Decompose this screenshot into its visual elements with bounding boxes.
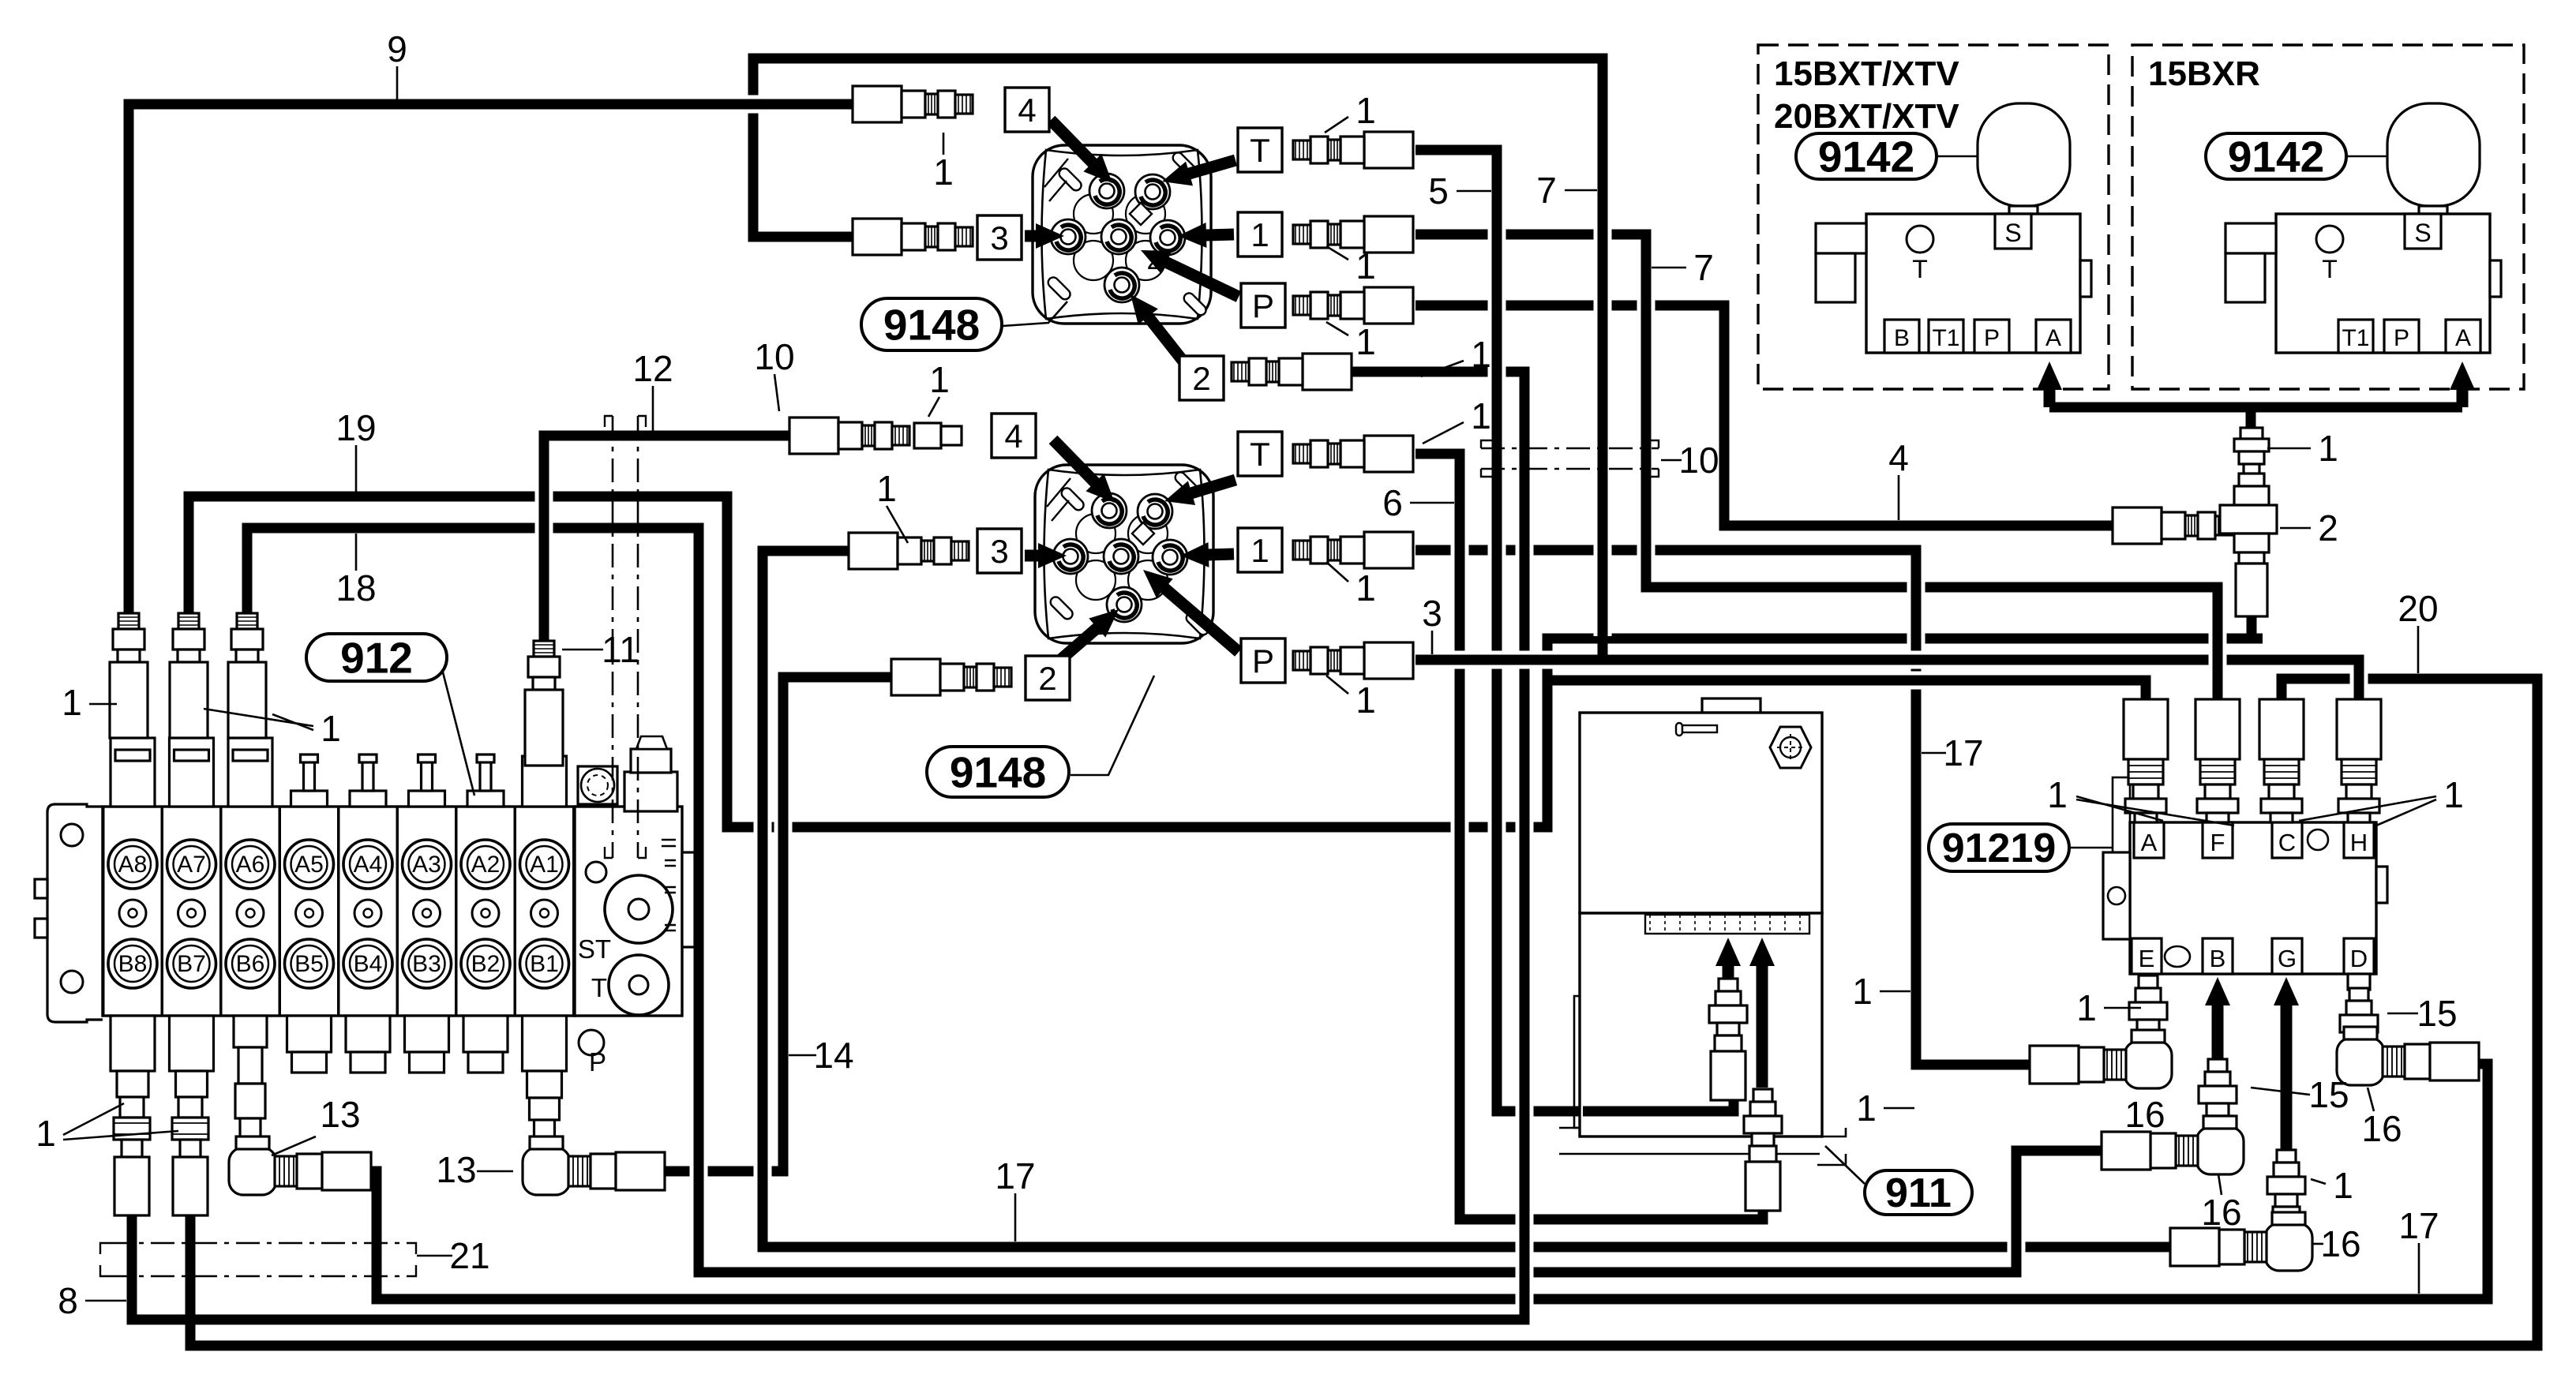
elbow 13 below A1 <box>523 1136 665 1195</box>
union nut on U2 line 4 <box>914 423 941 448</box>
svg-text:P: P <box>1252 642 1274 680</box>
wire hose 19 link riser <box>1539 638 1557 830</box>
svg-text:20: 20 <box>2398 588 2438 629</box>
part oval 9142 <box>1796 133 1937 179</box>
wire hose 5 trunk <box>1488 150 1506 1111</box>
pressure reducing valve body <box>2276 214 2490 353</box>
manifold left mount plate <box>2103 852 2130 939</box>
valve bottom port A <box>2446 320 2480 353</box>
svg-text:15: 15 <box>2308 1074 2349 1115</box>
svg-text:1: 1 <box>1471 334 1491 375</box>
manifold top port C <box>2272 822 2302 858</box>
wire hose 18 riser at B <box>2008 1151 2026 1272</box>
hose branch to manifold port A <box>1543 680 2146 709</box>
part oval 9148 (U1) <box>861 298 1002 350</box>
valve bottom port P <box>2384 320 2419 353</box>
wire hose 19 riser <box>718 496 737 827</box>
svg-text:9: 9 <box>387 28 407 69</box>
svg-text:1: 1 <box>2333 1165 2353 1206</box>
valve right tab <box>2490 260 2501 297</box>
svg-text:H: H <box>2350 829 2368 856</box>
part oval 911 <box>1865 1170 1972 1215</box>
svg-text:1: 1 <box>876 468 897 509</box>
svg-text:3: 3 <box>1422 593 1442 634</box>
arrow U1 port 1 <box>1178 223 1234 248</box>
svg-text:17: 17 <box>2398 1205 2439 1246</box>
svg-text:12: 12 <box>632 348 673 389</box>
manifold bottom port G <box>2272 938 2302 974</box>
svg-text:4: 4 <box>1018 92 1036 129</box>
svg-text:5: 5 <box>1428 170 1449 212</box>
manifold top port A <box>2134 822 2164 858</box>
svg-text:T: T <box>1912 255 1928 283</box>
port label box 2 <box>1179 356 1224 400</box>
tank hatch strip <box>1645 915 1809 934</box>
manifold bottom port D <box>2344 938 2374 974</box>
svg-text:A3: A3 <box>412 852 441 878</box>
fitting on U1 line T <box>1293 132 1413 168</box>
svg-text:E: E <box>2139 945 2155 972</box>
arrow into manifold B <box>2205 977 2230 1061</box>
svg-text:4: 4 <box>1888 437 1909 478</box>
relief body below section x=168 <box>111 1016 155 1097</box>
svg-text:13: 13 <box>436 1149 476 1190</box>
svg-text:1: 1 <box>1471 395 1491 436</box>
arrow tank return 2 <box>1749 938 1775 1088</box>
arrow U2 port P <box>1143 570 1239 652</box>
svg-text:B7: B7 <box>177 951 206 977</box>
svg-text:A2: A2 <box>471 852 501 878</box>
accumulator 9142 bulb <box>1978 103 2070 206</box>
manifold bottom port B <box>2203 938 2233 974</box>
valve bottom port A <box>2036 320 2071 353</box>
svg-text:21: 21 <box>449 1235 489 1276</box>
wire manifold F riser <box>2209 587 2227 709</box>
wire hose 7 trunk (port 1 to F) <box>1637 234 1655 587</box>
svg-text:9148: 9148 <box>950 747 1046 796</box>
svg-text:2: 2 <box>1038 660 1056 697</box>
hose 5 (joystick U1 port T to tank return) <box>1415 150 1734 1111</box>
tank bottom flange <box>1559 1128 1846 1165</box>
hose 5 over tank <box>1583 1094 1734 1111</box>
joystick base U1 (9148) <box>1033 145 1211 324</box>
fitting 1 at G <box>2267 1150 2305 1223</box>
hose 9 (valve A8 top to joystick U1 port 4) <box>129 104 853 613</box>
svg-text:1: 1 <box>2318 428 2338 469</box>
port label box 1 <box>1238 528 1282 572</box>
fitting below A7 <box>172 1097 208 1215</box>
svg-text:1: 1 <box>2443 774 2464 815</box>
svg-text:B4: B4 <box>354 951 383 977</box>
svg-text:1: 1 <box>1251 532 1269 569</box>
valve T gauge circle <box>1907 226 1933 253</box>
plug stem on section top x=615 <box>467 755 504 807</box>
hose 18 (valve A6 top to manifold port B) <box>247 528 2106 1272</box>
svg-text:1: 1 <box>933 152 954 193</box>
body below A1 <box>523 1016 567 1098</box>
svg-text:A4: A4 <box>354 852 383 878</box>
manifold top port F <box>2203 822 2233 858</box>
svg-text:3: 3 <box>990 219 1008 257</box>
port label box P <box>1241 283 1285 328</box>
svg-text:1: 1 <box>62 682 82 723</box>
wire hose 12 riser <box>535 442 553 805</box>
svg-text:2: 2 <box>1147 245 1162 275</box>
wire hose 4 trunk <box>1715 305 1734 526</box>
fitting 11 <box>525 641 563 766</box>
valve S port box <box>2405 214 2441 249</box>
tank left bracket <box>1574 996 1580 1128</box>
svg-text:T1: T1 <box>1932 325 1959 351</box>
accumulator 9142 bulb <box>2387 103 2480 206</box>
part oval 91219 <box>1929 824 2069 871</box>
pressure valve on section top x=317 <box>228 738 272 807</box>
fitting 1 above manifold x=2809 <box>2195 699 2240 822</box>
wire hose 18 trunk <box>690 528 708 1272</box>
part oval 9142 <box>2206 133 2346 179</box>
svg-text:P: P <box>1252 287 1274 324</box>
svg-text:2: 2 <box>1192 360 1210 397</box>
fitting on U2 line 3 <box>849 533 969 569</box>
arrow into manifold G <box>2274 977 2299 1151</box>
tank 911 outline <box>1580 698 1822 1136</box>
port label box T <box>1238 128 1282 172</box>
svg-text:7: 7 <box>1536 170 1557 211</box>
svg-text:1: 1 <box>1355 321 1376 362</box>
svg-text:10: 10 <box>1678 440 1719 481</box>
manifold small circle bottom <box>2165 946 2190 967</box>
manifold 91219 thin back strip <box>2113 777 2130 912</box>
svg-text:13: 13 <box>320 1094 360 1135</box>
valve section A2/B2 <box>456 797 515 1016</box>
arrow U2 port 1 <box>1180 542 1234 567</box>
fitting on U2 line P <box>1293 642 1413 679</box>
solenoid cap below section x=615 <box>463 1016 508 1073</box>
pressure valve on section top x=168 <box>111 738 155 807</box>
svg-text:ST: ST <box>578 934 611 964</box>
arrow U1 port T <box>1162 160 1236 185</box>
svg-text:1: 1 <box>2076 987 2097 1028</box>
solenoid cap below section x=391.5 <box>287 1016 332 1073</box>
valve section A8/B8 <box>103 797 162 1016</box>
elbow 16 at G <box>2170 1212 2312 1271</box>
svg-text:B2: B2 <box>471 951 501 977</box>
svg-text:1: 1 <box>1251 216 1269 253</box>
option box 15BXT/XTV 20BXT/XTV (9142) dashed enclosure <box>1758 45 2109 389</box>
valve body on A1 top <box>523 756 567 807</box>
plug stem on section top x=466 <box>350 755 386 807</box>
fitting on U1 line 4 <box>853 86 973 122</box>
valve T gauge circle <box>2316 226 2343 253</box>
svg-text:1: 1 <box>1355 567 1376 608</box>
option box 15BXR (9142) dashed enclosure <box>2132 45 2524 389</box>
fitting on U2 line 4 <box>789 418 909 454</box>
hose 17 (valve A6 bottom elbow 13 to manifold port D) <box>354 1064 2488 1299</box>
arrow U1 port 4 <box>1051 120 1112 183</box>
fitting 1 below E <box>2129 975 2167 1048</box>
tank filler pin <box>1676 723 1717 736</box>
hose to option boxes port A <box>2049 403 2462 413</box>
svg-text:14: 14 <box>813 1035 853 1076</box>
fitting stack below A1 <box>530 1098 560 1147</box>
tee bottom stub to hose 19 <box>2247 614 2257 641</box>
svg-text:1: 1 <box>1355 245 1376 286</box>
fitting on U1 line P <box>1293 287 1413 324</box>
svg-text:T: T <box>1250 132 1270 169</box>
fitting on hose 4 at tee <box>2113 507 2233 544</box>
hose 14 (joystick U2 port 2 to valve A1 bottom elbow 13) <box>636 677 891 1171</box>
svg-text:16: 16 <box>2201 1192 2241 1233</box>
svg-text:7: 7 <box>1693 247 1714 288</box>
svg-text:A6: A6 <box>236 852 265 878</box>
fitting below A8 <box>114 1097 150 1215</box>
svg-text:911: 911 <box>1885 1170 1952 1216</box>
solenoid cap below section x=540.5 <box>405 1016 449 1073</box>
svg-text:P: P <box>1984 325 2000 351</box>
wire hose 17 trunk (to E) <box>1907 550 1925 1065</box>
arrow U2 port 2 <box>1053 609 1119 666</box>
wire hose 7 vertical trunk <box>1594 63 1612 647</box>
fitting 1 above manifold x=2718 <box>2124 699 2168 822</box>
svg-text:T: T <box>1250 436 1270 473</box>
svg-text:19: 19 <box>336 407 376 448</box>
hose 8 (joystick U1 port 2 to valve A8 bottom) <box>132 372 1524 1320</box>
valve bottom port T1 <box>2338 320 2373 353</box>
svg-text:A1: A1 <box>530 852 559 878</box>
valve bank 912 body <box>103 807 575 1016</box>
hose 12 (valve A1 top via fitting 11 to joystick U2 port 4) <box>544 436 793 807</box>
svg-text:10: 10 <box>754 336 794 377</box>
svg-text:S: S <box>2004 219 2021 247</box>
port label box T <box>1238 432 1282 476</box>
valve section A3/B3 <box>398 797 456 1016</box>
svg-text:4: 4 <box>1004 418 1022 455</box>
svg-text:B: B <box>1894 325 1910 351</box>
svg-text:1: 1 <box>1355 90 1376 131</box>
port label box 3 <box>977 529 1022 573</box>
fitting on U1 line 1 <box>1293 216 1413 253</box>
svg-text:1: 1 <box>929 359 950 400</box>
fitting 1 above valve bank x=313 <box>228 613 266 738</box>
svg-text:16: 16 <box>2361 1108 2402 1149</box>
hose 3 (joystick U2 port P to manifold port H) <box>1415 660 2359 709</box>
fitting below tee <box>2236 564 2267 616</box>
svg-text:1: 1 <box>321 708 341 749</box>
wire hose A-feed run <box>1547 672 2141 690</box>
svg-text:8: 8 <box>58 1280 78 1321</box>
fitting stack below A6 <box>234 1016 267 1147</box>
svg-text:A8: A8 <box>118 852 148 878</box>
svg-text:1: 1 <box>1856 1088 1877 1129</box>
part oval 912 <box>306 634 447 681</box>
hose 4 (joystick U1 port P to tee fitting 2) <box>1415 305 2113 526</box>
port label box 4 <box>1005 88 1049 132</box>
clamp strap 21 <box>100 1243 416 1276</box>
svg-text:20BXT/XTV: 20BXT/XTV <box>1774 97 1959 136</box>
arrow U1 port 2 <box>1131 294 1183 361</box>
svg-text:1: 1 <box>36 1113 56 1154</box>
svg-text:B1: B1 <box>530 951 559 977</box>
fitting 1 tank return 1 <box>1709 979 1747 1100</box>
hose 19 (valve A7 top to tee fitting 2) <box>189 496 2263 827</box>
plug stem on section top x=540.5 <box>409 755 445 807</box>
svg-text:T: T <box>2322 255 2338 283</box>
manifold right tab <box>2376 867 2387 903</box>
fitting 1 above manifold x=2988 <box>2337 699 2381 822</box>
wire hose 9 over trunk <box>140 95 848 114</box>
svg-text:18: 18 <box>336 567 376 608</box>
pressure reducing valve body <box>1866 214 2080 353</box>
wire hose 8 trunk <box>1516 372 1534 1320</box>
valve left port blocks <box>2225 223 2276 253</box>
svg-text:15: 15 <box>2417 993 2457 1034</box>
plug stem on section top x=391.5 <box>291 755 328 807</box>
joystick base U2 (9148) <box>1035 465 1213 643</box>
valve section A4/B4 <box>339 797 397 1016</box>
svg-text:2: 2 <box>2318 507 2338 549</box>
valve bottom port P <box>1974 320 2009 353</box>
valve section A6/B6 <box>221 797 279 1016</box>
fitting 1 above manifold x=2890 <box>2259 699 2304 822</box>
svg-text:P: P <box>2394 325 2409 351</box>
svg-text:1: 1 <box>1852 971 1873 1012</box>
wire hose 6 trunk <box>1451 454 1469 1219</box>
manifold 91219 body <box>2130 822 2376 974</box>
valve section A1/B1 <box>516 797 574 1016</box>
svg-text:T1: T1 <box>2342 325 2369 351</box>
valve bank 912 mounting bracket <box>35 804 103 1022</box>
manifold small circle top <box>2308 829 2328 850</box>
manifold bottom port E <box>2132 938 2162 974</box>
valve end block (inlet ST/T/P) <box>575 736 695 1055</box>
hose 17 (joystick U2 port 3 to manifold port G) <box>763 551 2191 1247</box>
svg-text:C: C <box>2278 829 2296 856</box>
fitting on U2 line T <box>1293 436 1413 472</box>
fitting on U2 line 1 <box>1293 532 1413 568</box>
fitting on U2 line 2 <box>891 659 1011 695</box>
svg-text:A: A <box>2455 325 2471 351</box>
fitting 1 above tee <box>2234 428 2269 475</box>
hose 20 (valve A7 bottom to manifold port C) <box>190 679 2537 1346</box>
clamp strap 10 (vertical) <box>605 416 646 858</box>
svg-text:A7: A7 <box>177 852 206 878</box>
wire manifold H riser <box>2350 660 2368 709</box>
wire hose 17 riser at D <box>2479 1064 2497 1299</box>
svg-text:16: 16 <box>2320 1223 2360 1264</box>
wire hose 17 trunk (to G) <box>754 551 772 1247</box>
svg-text:B5: B5 <box>294 951 324 977</box>
svg-text:3: 3 <box>990 533 1008 570</box>
svg-text:S: S <box>2414 219 2431 247</box>
svg-text:G: G <box>2278 945 2297 972</box>
relief body below section x=242.5 <box>170 1016 214 1097</box>
fitting 1 above valve bank x=239 <box>170 613 208 738</box>
svg-text:9148: 9148 <box>883 300 980 349</box>
svg-text:B3: B3 <box>412 951 441 977</box>
arrow tank return 1 <box>1715 938 1741 979</box>
hose 7 (joystick U1 port 3 riser to H feed tee) <box>753 58 1603 665</box>
svg-text:91219: 91219 <box>1942 826 2057 871</box>
elbow 13 below A6 <box>229 1136 371 1195</box>
svg-text:9142: 9142 <box>2228 132 2324 181</box>
port label box 2 <box>1026 656 1070 700</box>
svg-text:912: 912 <box>340 633 413 682</box>
port label box P <box>1241 638 1285 683</box>
elbow 16 at D <box>2337 1027 2479 1085</box>
part oval 9148 (U2) <box>927 747 1069 797</box>
junction patch hose 7 to H line <box>1598 641 1608 665</box>
solenoid cap below section x=466 <box>346 1016 390 1073</box>
elbow 16 at E <box>2030 1030 2172 1088</box>
svg-text:16: 16 <box>2124 1094 2165 1135</box>
valve bottom port T1 <box>1929 320 1963 353</box>
tee fitting 2 <box>2220 474 2277 564</box>
svg-text:A: A <box>2141 829 2158 856</box>
fitting on U1 line 2 <box>1232 354 1352 390</box>
wire hose 20 riser <box>2529 679 2547 1346</box>
svg-text:1: 1 <box>2047 774 2068 815</box>
port label box 4 <box>992 414 1036 458</box>
fitting 15 at B <box>2199 1059 2237 1132</box>
valve bottom port B <box>1884 320 1919 353</box>
wire hose 14 trunk <box>774 677 793 1171</box>
arrow U2 port T <box>1164 480 1236 505</box>
fitting 1 tank return 2 <box>1744 1089 1782 1211</box>
wire hose 3 horizontal run <box>1415 651 2353 669</box>
port label box 3 <box>977 215 1022 260</box>
svg-text:D: D <box>2350 945 2368 972</box>
svg-text:F: F <box>2210 829 2225 856</box>
elbow 16 at B <box>2102 1116 2244 1174</box>
svg-text:15BXT/XTV: 15BXT/XTV <box>1774 54 1959 93</box>
pressure valve on section top x=242.5 <box>170 738 214 807</box>
arrow into 15BXR port A <box>2450 361 2475 407</box>
valve S port box <box>1995 214 2031 249</box>
svg-text:B8: B8 <box>118 951 148 977</box>
valve section A7/B7 <box>163 797 221 1016</box>
svg-text:17: 17 <box>1943 732 1983 773</box>
hose 7 (joystick U1 port 1 to manifold port F) <box>1415 234 2218 709</box>
svg-text:B: B <box>2210 945 2226 972</box>
arrow into 15BXT port A <box>2037 361 2062 407</box>
fitting 15 below D <box>2348 974 2370 990</box>
svg-text:P: P <box>589 1047 606 1077</box>
hose 17 (joystick U2 port 1 to manifold port E) <box>1415 550 2053 1065</box>
clamp strap 10 (horizontal) <box>1481 440 1659 477</box>
valve right tab <box>2080 260 2091 297</box>
fitting 1 above valve bank x=163 <box>110 613 148 738</box>
svg-text:1: 1 <box>1355 680 1376 721</box>
svg-text:6: 6 <box>1382 482 1403 523</box>
svg-text:B6: B6 <box>236 951 265 977</box>
valve left port blocks <box>1816 223 1866 253</box>
arrow U2 port 4 <box>1053 440 1115 503</box>
arrow U1 port 3 <box>1025 223 1064 249</box>
svg-text:15BXR: 15BXR <box>2148 54 2260 93</box>
tank breather hex bolt <box>1770 727 1811 768</box>
svg-text:9142: 9142 <box>1818 132 1914 181</box>
svg-text:A5: A5 <box>294 852 324 878</box>
svg-text:11: 11 <box>602 629 639 670</box>
arrow U2 port 3 <box>1025 543 1067 568</box>
fitting on U1 line 3 <box>853 219 973 255</box>
wire hose 17 riser at A6 <box>368 1171 386 1299</box>
tee riser to option box A line <box>2246 407 2256 485</box>
manifold top port H <box>2344 822 2374 858</box>
arrow U1 port P <box>1141 250 1239 297</box>
port label box 1 <box>1238 212 1282 257</box>
svg-text:A: A <box>2045 325 2061 351</box>
